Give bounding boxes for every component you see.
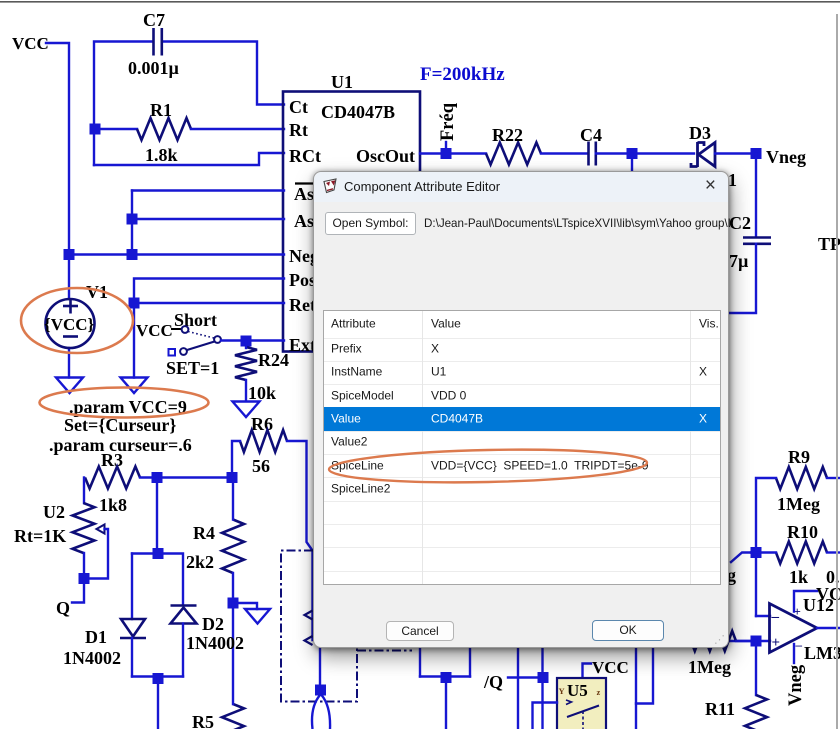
annotation ellipse param [40,388,209,418]
wire vertical d [636,648,653,704]
svg-text:Ct: Ct [289,97,308,117]
svg-text:56: 56 [252,456,270,476]
junction Re [129,298,140,309]
svg-text:U5: U5 [567,681,588,700]
pin arrow upper [305,611,313,620]
wire drop under dialog [631,154,633,174]
resistor R1 [137,118,191,140]
svg-text:D2: D2 [202,614,224,634]
svg-text:1k: 1k [789,567,808,587]
svg-text:1k8: 1k8 [99,495,127,515]
wire opamp vneg [793,644,795,663]
wire D1 bottom [131,638,133,677]
svg-text:–: – [795,637,803,652]
wire As column [131,191,133,255]
svg-text:z: z [597,687,601,697]
wire Q stub [72,579,84,603]
wire /Q stub [508,676,543,678]
resistor R24 [235,347,257,380]
wire vertical b [541,648,543,729]
wire R5 top [232,603,234,704]
wire R10 right [827,551,840,553]
wire R1 left lead [94,128,137,130]
junction noninv [751,636,762,647]
svg-text:2k2: 2k2 [186,552,214,572]
pin arrow lower [305,636,313,645]
wire As-bar net [132,189,284,191]
wire VCC to U5 [583,664,592,679]
wire Freq tick [445,142,447,150]
pot U2 wiper [84,525,108,579]
svg-text:R24: R24 [258,350,289,370]
wire diode bottom rail [132,675,183,677]
wire bracket left [419,648,421,677]
wire node down [156,478,158,554]
wire R4 top [232,478,234,520]
capacitor C4 [589,142,596,166]
svg-text:As: As [294,211,314,231]
wire VCC to V1 column [46,43,69,299]
svg-text:LM358: LM358 [804,643,840,663]
junction R3 out [152,472,163,483]
ground Pos-Re [121,378,148,394]
wire vertical c [635,648,637,729]
junction C4 out [627,148,638,159]
switch S1 [169,326,221,355]
wire opamp out [817,627,840,629]
svg-text:+: + [772,635,781,651]
wire C4 to D3 [596,152,694,154]
junction R4 bottom [228,598,239,609]
svg-text:C7: C7 [143,10,165,30]
svg-text:R6: R6 [251,414,273,434]
ground V1 [56,378,83,394]
junction VCC-Neg [64,249,75,260]
diode D2 [171,606,197,624]
wire Vneg to C2 [755,154,757,238]
wire inv input [756,615,770,617]
capacitor C7 [154,28,162,56]
wire U5 Y pin [533,703,558,729]
wire R7 fragment [731,553,751,563]
svg-text:VCC: VCC [12,34,49,53]
component fork [312,695,330,729]
svg-text:Q: Q [56,598,70,618]
wire R24 bottom [245,380,247,401]
wire As net [132,218,284,220]
wire R9 right [827,477,840,479]
wire OscOut lead [420,152,486,154]
wire bracket down [445,678,447,729]
wire C7 top rail right [163,42,284,105]
wire R4 bottom [232,573,234,603]
wire R9 left column [756,478,776,616]
resistor R11 [745,695,767,729]
op-amp U12 [770,604,818,653]
svg-text:U1: U1 [331,72,353,92]
wire R22 to C4 [541,152,588,154]
pin As-bar [294,184,314,205]
junction Vneg [751,148,762,159]
svg-text:/Q: /Q [483,672,503,692]
dashed box component X1 [281,551,357,702]
svg-text:As: As [294,184,314,204]
svg-text:Vneg: Vneg [786,664,806,706]
resistor R4 [222,520,244,574]
wire R10 left [751,551,776,553]
wire C2 bottom [723,244,756,313]
wire R1 right lead to Rt [191,128,284,130]
voltage source V1 [46,299,95,349]
svg-text:1.8k: 1.8k [145,145,178,165]
svg-text:C2: C2 [729,213,751,233]
wire V1 bottom [68,348,70,378]
wire bracket right [469,648,471,677]
annotation ellipse SpiceLine [329,447,648,486]
resistor R5 [222,704,244,729]
resistor R6 [240,430,287,452]
svg-text:OscOut: OscOut [356,146,415,166]
svg-text:D1: D1 [85,627,107,647]
wire bottom rail down [157,677,159,729]
wire vertical a [517,648,519,729]
junction Freq [441,148,452,159]
wire R3 left to U2 [83,478,85,504]
switch U5 [557,678,606,729]
wire pin column [319,648,321,685]
svg-text:Fréq: Fréq [438,102,458,141]
wire R6 left lead [232,441,240,478]
resistor R10 [776,542,827,564]
svg-text:1N4002: 1N4002 [186,633,244,653]
svg-text:R4: R4 [193,523,215,543]
wire D2 bottom [182,624,184,677]
svg-text:F=200kHz: F=200kHz [420,64,505,85]
junction R6 bottom [227,472,238,483]
wire nireg input [730,640,770,642]
wire noninv down [755,641,757,695]
resistor R22 [486,143,541,165]
capacitor C2 [743,238,771,244]
wire switch to Ext [221,339,284,341]
potentiometer U2 [73,503,95,553]
svg-text:R1: R1 [150,100,172,120]
wire R6 right lead [287,441,313,640]
junction fork [315,685,326,696]
svg-text:D3: D3 [689,123,711,143]
diode D1 [120,619,146,638]
svg-text:1N4002: 1N4002 [63,648,121,668]
wire Neg net [69,253,284,255]
wire D1 top [131,554,133,620]
junction As-Neg [127,249,138,260]
svg-text:R9: R9 [788,447,810,467]
wire bracket bottom [420,675,470,677]
junction /Q [538,672,549,683]
svg-text:R22: R22 [492,125,523,145]
svg-text:1Meg: 1Meg [777,494,820,514]
svg-text:VCC: VCC [592,658,629,677]
svg-text:1Meg: 1Meg [688,657,731,677]
wire Pos net [134,279,284,378]
junction inv node [751,547,762,558]
resistor R9 [776,467,827,489]
junction diode rail [153,548,164,559]
wire R24 top [245,341,247,348]
svg-text:10k: 10k [248,383,276,403]
svg-text:Rt: Rt [289,120,308,140]
annotation ellipse V1 [21,288,133,353]
svg-text:–: – [771,609,780,625]
wire opamp vcc [794,591,817,612]
ground R4 [245,609,270,624]
wire C7 top rail left [94,42,152,166]
svg-text:Set={Curseur}: Set={Curseur} [64,415,176,435]
svg-text:R10: R10 [787,522,818,542]
junction U2 out [79,573,90,584]
wire R4 gnd stub [233,603,257,609]
wire R3 out rail [140,476,232,478]
svg-text:VCC: VCC [136,321,173,340]
wire U2 bottom [83,553,85,579]
resistor R3 [85,467,140,489]
svg-text:R11: R11 [705,699,735,719]
svg-text:U12: U12 [803,595,834,615]
junction R1 left [90,124,101,135]
junction Ext [241,336,252,347]
svg-text:R5: R5 [192,712,214,729]
op IC U1 CD4047B box [283,92,420,352]
svg-text:R3: R3 [101,450,123,470]
LTspice icon [322,178,339,195]
svg-text:RCt: RCt [289,146,321,166]
wire R8 to junction [736,640,751,642]
svg-text:SET=1: SET=1 [166,358,219,378]
svg-text:Y: Y [559,686,565,696]
dashed box component X2 [357,650,412,652]
wire diode top rail [132,554,183,606]
diode D3 zener [691,142,715,167]
svg-text:1: 1 [728,170,737,190]
resistor R8 fragment [691,631,736,651]
svg-text:U2: U2 [43,502,65,522]
wire Re net [134,302,284,304]
svg-text:CD4047B: CD4047B [321,102,395,122]
svg-text:Pos: Pos [289,270,316,290]
svg-text:{VCC}: {VCC} [44,315,95,334]
svg-text:Ext: Ext [289,335,316,355]
svg-text:Short: Short [174,310,217,330]
svg-text:C4: C4 [580,125,602,145]
ground R24 [233,402,260,418]
wire RCt bottom rail [94,153,284,165]
junction bracket [441,672,452,683]
wire D3 to Vneg [715,152,751,154]
Component Attribute Editor dialog [313,171,729,648]
svg-text:0.001µ: 0.001µ [128,58,180,78]
svg-text:Rt=1K: Rt=1K [14,526,66,546]
svg-text:Vneg: Vneg [766,147,806,167]
junction As [127,214,138,225]
junction bottom rail [153,673,164,684]
